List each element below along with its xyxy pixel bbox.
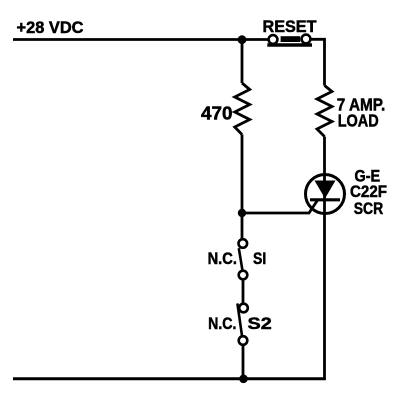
svg-text:SI: SI xyxy=(253,250,266,268)
svg-text:470: 470 xyxy=(201,104,233,124)
svg-text:RESET: RESET xyxy=(263,17,318,36)
svg-text:C22F: C22F xyxy=(350,183,387,201)
svg-text:+28 VDC: +28 VDC xyxy=(17,18,84,37)
svg-text:S2: S2 xyxy=(248,315,272,333)
svg-text:N.C.: N.C. xyxy=(208,250,237,268)
svg-text:LOAD: LOAD xyxy=(338,111,379,131)
svg-text:N.C.: N.C. xyxy=(208,315,236,333)
svg-text:SCR: SCR xyxy=(354,200,384,218)
